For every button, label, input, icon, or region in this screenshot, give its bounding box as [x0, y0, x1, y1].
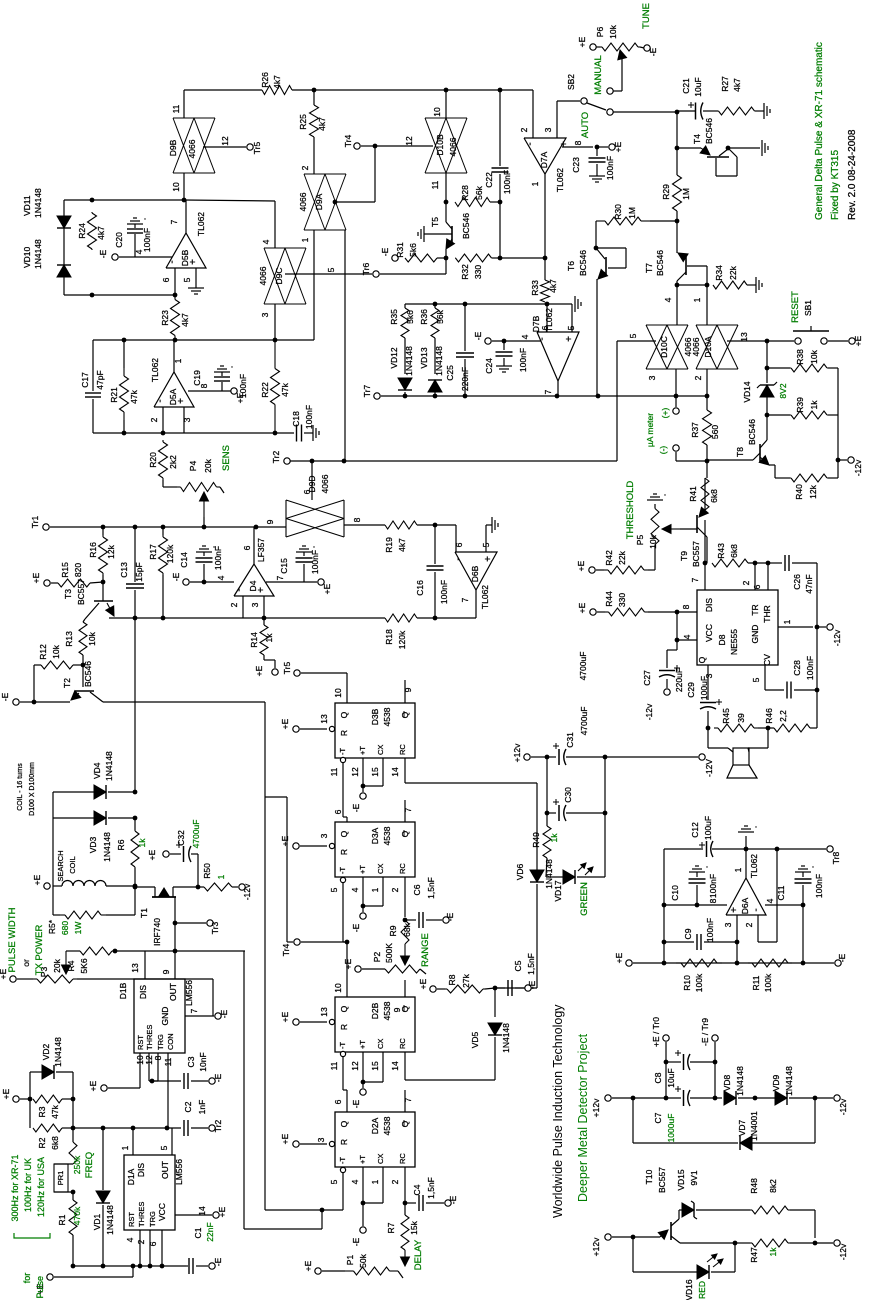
wire D9A lower rail to bus461: [344, 230, 346, 461]
svg-text:1,5nF: 1,5nF: [426, 877, 436, 899]
switch D9C (4066): [274, 201, 276, 248]
wire bus +top (R26 row, y=90): [184, 89, 262, 91]
svg-text:4: 4: [125, 1237, 135, 1242]
capacitor C5 1,5nF: [495, 987, 505, 989]
wire pin5 D9C to Tr6: [285, 273, 372, 275]
svg-text:120k: 120k: [397, 630, 407, 649]
svg-text:4: 4: [134, 249, 144, 254]
svg-text:14: 14: [197, 1206, 207, 1216]
resistor R9 68k: [401, 920, 409, 944]
svg-text:Tr8: Tr8: [831, 852, 841, 865]
svg-text:R8: R8: [447, 974, 457, 985]
svg-text:1: 1: [370, 1179, 380, 1184]
svg-text:TR: TR: [750, 604, 760, 615]
svg-text:R9: R9: [388, 925, 398, 936]
capacitor C6 1,5nF: [405, 919, 416, 921]
resistor R22: [274, 340, 276, 369]
potentiometer P5 10k: [671, 528, 680, 530]
svg-text:D3A: D3A: [370, 827, 380, 844]
capacitor C3 10nF: [183, 1073, 185, 1089]
svg-text:2: 2: [693, 375, 703, 380]
svg-text:R: R: [339, 849, 349, 855]
capacitor C9 100nF: [664, 941, 694, 943]
svg-text:1: 1: [370, 887, 380, 892]
svg-text:C31: C31: [565, 732, 575, 748]
svg-text:C32: C32: [176, 830, 186, 846]
svg-text:-E: -E: [219, 1009, 229, 1018]
resistor R11 100k: [748, 962, 752, 964]
wire pin6 D5B: [174, 268, 176, 295]
resistor R49 1k: [543, 826, 551, 858]
svg-text:50k: 50k: [358, 1253, 368, 1267]
svg-text:-12v: -12v: [838, 1243, 848, 1260]
svg-text:DIS: DIS: [704, 598, 714, 613]
capacitor C1 22nF: [188, 1258, 190, 1274]
wire pin1 D9A: [313, 230, 315, 340]
svg-text:4: 4: [261, 239, 271, 244]
svg-text:-E: -E: [213, 1257, 223, 1266]
svg-text:2: 2: [390, 887, 400, 892]
svg-text:7: 7: [403, 1097, 413, 1102]
switch D9D (4066): [285, 500, 287, 537]
svg-text:P6: P6: [595, 27, 605, 38]
svg-text:Tr5: Tr5: [252, 142, 262, 155]
op-amp D5A TL062: [154, 372, 194, 407]
svg-text:Q: Q: [400, 1120, 410, 1127]
svg-text:13: 13: [319, 1007, 329, 1017]
svg-text:+E: +E: [280, 835, 290, 846]
svg-text:+: +: [564, 336, 575, 342]
svg-text:-E: -E: [648, 47, 658, 56]
svg-text:R20: R20: [148, 452, 158, 468]
svg-text:1N4148: 1N4148: [784, 1066, 794, 1096]
wires pins 12/8 D1B: [148, 1053, 150, 1081]
svg-text:4: 4: [520, 334, 530, 339]
switch D9B (4066): [173, 117, 215, 119]
svg-text:20k: 20k: [203, 458, 213, 472]
svg-text:68k: 68k: [402, 922, 412, 936]
resistor R2 6k8: [29, 1099, 31, 1128]
transistor T9 BC557: [704, 478, 706, 512]
svg-text:27k: 27k: [461, 973, 471, 987]
svg-text:RANGE: RANGE: [420, 933, 431, 967]
resistor R35 5k6: [401, 308, 409, 338]
wire pin4 D10C: [676, 285, 678, 325]
potentiometer P2 500K: [404, 944, 406, 956]
op-amp D4 LF357: [234, 564, 274, 596]
svg-text:R32: R32: [460, 264, 470, 280]
resistor R3 47k: [33, 1095, 62, 1103]
svg-text:4k7: 4k7: [397, 538, 407, 552]
resistor R18 120k: [109, 617, 385, 619]
svg-text:DELAY: DELAY: [413, 1239, 424, 1270]
svg-text:13: 13: [319, 714, 329, 724]
svg-text:9V1: 9V1: [689, 1170, 699, 1185]
svg-text:D4: D4: [248, 580, 258, 591]
svg-text:-E: -E: [837, 953, 847, 962]
svg-text:SEARCH: SEARCH: [56, 850, 65, 881]
svg-text:5: 5: [329, 887, 339, 892]
svg-text:47nF: 47nF: [804, 574, 814, 593]
resistor R16 12k: [102, 535, 104, 537]
svg-text:T10: T10: [644, 1169, 654, 1184]
capacitor C30 4700uF: [546, 757, 548, 813]
wire -E long run: [103, 701, 265, 703]
svg-text:+E: +E: [88, 1080, 98, 1091]
wire AUTO row y=112: [613, 111, 677, 113]
svg-text:General Delta Pulse & XR-71 sc: General Delta Pulse & XR-71 schematic: [814, 42, 825, 220]
terminal +E (coil): [44, 883, 50, 889]
resistor R42 22k with +E: [589, 567, 595, 573]
svg-text:+T: +T: [358, 1040, 367, 1049]
svg-text:10nF: 10nF: [198, 1052, 208, 1071]
svg-text:GREEN: GREEN: [579, 882, 590, 916]
transistor T10 BC557: [633, 1236, 660, 1238]
svg-text:100nF: 100nF: [708, 874, 718, 898]
capacitor C13 15pF: [134, 527, 136, 582]
svg-text:-E: -E: [351, 923, 361, 932]
svg-text:100nF: 100nF: [439, 580, 449, 604]
svg-text:Rev. 2.0 08-24-2008: Rev. 2.0 08-24-2008: [847, 129, 858, 220]
wire Tr4 branch: [265, 796, 287, 798]
terminal Tr7: [374, 393, 380, 399]
svg-text:R33: R33: [530, 280, 540, 296]
svg-text:10k: 10k: [648, 534, 658, 548]
svg-text:BC546: BC546: [578, 250, 588, 276]
wire pin11 D1B: [167, 1053, 169, 1128]
svg-text:Tr1: Tr1: [30, 516, 40, 529]
wire pin3 D10C: [675, 369, 677, 396]
svg-text:-: -: [234, 588, 245, 591]
resistor R39 1k: [765, 413, 770, 418]
svg-text:-T: -T: [338, 748, 347, 755]
svg-text:C10: C10: [670, 885, 680, 901]
svg-text:R: R: [339, 1139, 349, 1145]
wire pin1 D8: [778, 626, 813, 628]
svg-text:1N4148: 1N4148: [104, 751, 114, 781]
svg-text:4066: 4066: [691, 337, 701, 356]
wire pin1 D10A: [706, 285, 708, 325]
svg-text:TX POWER: TX POWER: [34, 925, 45, 976]
resistor R12 10k: [41, 661, 73, 669]
wire pin14 D2B: [404, 1052, 406, 1080]
svg-text:T1: T1: [139, 908, 149, 918]
svg-text:C11: C11: [776, 885, 786, 900]
svg-text:300Hz for XR-71: 300Hz for XR-71: [10, 1154, 20, 1221]
diode VD9 1N4148: [755, 1097, 775, 1099]
svg-text:D10C: D10C: [659, 336, 669, 358]
wire pin13 D10A to SB1: [727, 340, 767, 342]
svg-text:C12: C12: [690, 822, 700, 838]
svg-text:+E: +E: [343, 958, 353, 969]
capacitor C4 1,5nF: [405, 1202, 416, 1204]
svg-text:14: 14: [390, 1061, 400, 1071]
wire pin2 D2A: [404, 1167, 406, 1203]
terminal +E/Tr0: [663, 1035, 669, 1041]
potentiometer P3 20k: [10, 976, 16, 982]
svg-text:10uF: 10uF: [666, 1068, 676, 1087]
capacitor C21 10uF: [695, 103, 697, 120]
svg-text:8: 8: [573, 140, 583, 145]
terminal Tr1: [43, 524, 49, 530]
wire pin10 D3B: [346, 673, 348, 703]
svg-text:D3B: D3B: [370, 708, 380, 725]
svg-text:11: 11: [329, 767, 339, 776]
wire pin3 D7A to SB2: [556, 101, 558, 138]
svg-text:R50: R50: [202, 863, 212, 879]
terminal +E (C15): [318, 579, 324, 585]
terminal -12V: [699, 754, 705, 760]
wire top rail y=849: [664, 848, 703, 850]
svg-text:C23: C23: [571, 157, 581, 173]
wire pin6 D6B: [435, 524, 456, 526]
svg-text:-12v: -12v: [838, 1098, 848, 1115]
wire meter row y=396: [590, 395, 707, 397]
resistor R7 15k: [401, 1215, 409, 1250]
svg-text:CX: CX: [376, 1039, 385, 1049]
svg-text:1000uF: 1000uF: [666, 1114, 676, 1143]
terminal -12v (LED block): [815, 1242, 833, 1244]
svg-text:-E: -E: [351, 1237, 361, 1246]
transistor T7 BC546: [676, 221, 678, 253]
switch D9A (4066): [313, 137, 315, 174]
svg-text:9: 9: [161, 969, 171, 974]
svg-text:1: 1: [120, 1145, 130, 1150]
svg-text:1N4148: 1N4148: [33, 239, 43, 269]
svg-text:6k8: 6k8: [709, 489, 719, 503]
svg-text:SB2: SB2: [566, 74, 576, 90]
svg-text:BC557: BC557: [76, 579, 86, 605]
svg-text:VD17: VD17: [553, 880, 563, 902]
svg-text:820: 820: [73, 563, 83, 577]
svg-text:4700uF: 4700uF: [578, 652, 588, 681]
svg-text:15: 15: [370, 767, 380, 777]
wire D7B output: [557, 381, 559, 396]
resistor R6 1k: [134, 830, 136, 831]
svg-text:+12v: +12v: [591, 1237, 601, 1256]
svg-text:4066: 4066: [187, 139, 197, 158]
wire pin2 D6A feedback: [757, 915, 759, 942]
svg-text:COIL - 16 turns: COIL - 16 turns: [17, 763, 24, 811]
svg-text:2: 2: [390, 1179, 400, 1184]
svg-text:9: 9: [265, 519, 275, 524]
svg-text:100nF: 100nF: [502, 170, 512, 194]
svg-text:D9A: D9A: [314, 193, 324, 210]
svg-text:SENS: SENS: [221, 445, 232, 471]
svg-text:-E: -E: [171, 572, 181, 581]
svg-text:4: 4: [663, 297, 673, 302]
svg-text:+T: +T: [358, 1155, 367, 1164]
svg-text:10: 10: [333, 688, 343, 698]
svg-text:8: 8: [352, 517, 362, 522]
svg-text:5k6: 5k6: [405, 310, 415, 324]
resistor R41 6k8: [701, 478, 709, 510]
svg-text:-: -: [525, 142, 536, 145]
svg-text:BC546: BC546: [747, 419, 757, 445]
svg-text:CON: CON: [166, 1033, 175, 1050]
svg-text:1N4148: 1N4148: [102, 832, 112, 862]
svg-text:47k: 47k: [50, 1104, 60, 1118]
svg-text:Q: Q: [697, 656, 707, 663]
svg-text:4: 4: [216, 575, 226, 580]
svg-text:-E: -E: [445, 912, 455, 921]
resistor R21: [123, 368, 125, 376]
svg-text:2: 2: [300, 165, 310, 170]
svg-text:6: 6: [242, 545, 252, 550]
resistor R32: [454, 257, 457, 259]
resistor R46 2,2: [774, 724, 810, 732]
svg-text:R5*: R5*: [47, 919, 57, 934]
potentiometer P1 50k: [404, 1250, 406, 1257]
svg-text:C26: C26: [792, 574, 802, 590]
diode VD5 1N4148: [494, 988, 496, 1017]
svg-text:C1: C1: [193, 1227, 203, 1238]
svg-text:C9: C9: [683, 928, 693, 939]
svg-text:1N4001: 1N4001: [749, 1111, 759, 1141]
transistor T5 BC546: [423, 226, 425, 242]
svg-text:4k7: 4k7: [272, 75, 282, 89]
svg-text:C21: C21: [681, 78, 691, 94]
svg-text:1: 1: [733, 867, 743, 872]
terminal +E (R3): [13, 1096, 19, 1102]
resistor R13 10k: [79, 622, 87, 655]
svg-text:15pF: 15pF: [134, 562, 144, 581]
svg-text:RED: RED: [697, 1281, 707, 1299]
wire VD14 branch: [766, 341, 768, 368]
svg-text:2: 2: [136, 1239, 146, 1244]
svg-text:4538: 4538: [382, 1116, 392, 1135]
svg-text:Tr4: Tr4: [343, 135, 353, 148]
svg-text:1N4148: 1N4148: [105, 1205, 115, 1235]
capacitor C31 4700uF: [547, 756, 556, 758]
svg-text:5: 5: [326, 267, 336, 272]
svg-text:CV: CV: [762, 654, 772, 666]
resistor R4 5K6: [80, 947, 112, 955]
svg-text:R12: R12: [38, 644, 48, 660]
wire pin9 D1B: [174, 951, 176, 979]
svg-text:1k: 1k: [137, 838, 147, 848]
svg-text:-12v: -12v: [832, 629, 842, 646]
svg-text:C22: C22: [484, 172, 494, 188]
IC D1B LM556: [134, 979, 185, 1053]
svg-text:7: 7: [275, 575, 285, 580]
resistor R48 8k2: [750, 1209, 752, 1211]
terminal +E (D2A reset): [293, 1141, 299, 1147]
resistor R27: [717, 110, 720, 112]
svg-text:Delta Pulse: Delta Pulse: [35, 1276, 45, 1300]
resistor R15 820 with +E: [44, 580, 50, 586]
svg-text:OUT: OUT: [160, 1161, 170, 1179]
svg-text:1k: 1k: [768, 1247, 778, 1257]
svg-text:Tr2: Tr2: [271, 451, 281, 464]
svg-text:3: 3: [647, 375, 657, 380]
svg-text:C18: C18: [291, 411, 301, 427]
svg-text:D5A: D5A: [168, 388, 178, 405]
op-amp D6B TL062: [455, 552, 497, 590]
diode VD10 1N4148: [57, 265, 71, 277]
wire pin3 D4: [263, 596, 265, 618]
svg-text:C15: C15: [279, 558, 289, 574]
diode VD8 1N4148: [724, 1091, 736, 1105]
svg-text:R44: R44: [604, 591, 614, 607]
svg-text:Q: Q: [400, 830, 410, 837]
svg-text:4k7: 4k7: [732, 78, 742, 92]
transistor T6 BC546: [605, 257, 607, 275]
svg-text:+E: +E: [280, 1133, 290, 1144]
svg-text:Tr6: Tr6: [361, 263, 371, 276]
svg-text:4066: 4066: [258, 266, 268, 285]
svg-text:-T: -T: [338, 1042, 347, 1049]
svg-text:100nF: 100nF: [814, 874, 824, 898]
svg-text:-E: -E: [473, 331, 483, 340]
svg-text:VCC: VCC: [157, 1203, 167, 1221]
capacitor C24 100nF: [502, 339, 507, 344]
svg-text:R16: R16: [88, 542, 98, 558]
svg-text:BC546: BC546: [704, 118, 714, 144]
svg-text:R27: R27: [720, 76, 730, 92]
wire pin8 D9D to R19: [344, 524, 385, 526]
IC D1A LM556: [124, 1155, 175, 1230]
svg-text:100nF: 100nF: [213, 546, 223, 570]
svg-text:+E: +E: [614, 952, 624, 963]
svg-text:2,2: 2,2: [778, 710, 788, 722]
svg-text:680: 680: [60, 921, 70, 935]
diode VD3 1N4148: [53, 817, 95, 819]
svg-text:VD9: VD9: [771, 1074, 781, 1091]
svg-text:+T: +T: [358, 865, 367, 874]
svg-text:R35: R35: [389, 309, 399, 325]
wire pin11 D3B: [340, 757, 345, 762]
svg-text:12: 12: [350, 1061, 360, 1071]
svg-text:2k2: 2k2: [168, 455, 178, 469]
svg-text:-: -: [155, 399, 166, 402]
capacitor C12 100uF: [706, 841, 708, 857]
svg-text:LF357: LF357: [256, 538, 266, 562]
ground above D6A output: [745, 836, 747, 849]
svg-text:VD10: VD10: [22, 246, 32, 268]
svg-text:6: 6: [333, 1099, 343, 1104]
svg-text:VD5: VD5: [470, 1031, 480, 1048]
svg-text:4538: 4538: [382, 826, 392, 845]
svg-text:100nF: 100nF: [605, 156, 615, 180]
wire pin10 D9B: [183, 173, 185, 200]
wire pin9 D3B: [404, 680, 406, 703]
ground above P5: [654, 504, 656, 508]
terminal +12v (C31): [524, 754, 530, 760]
svg-text:4700uF: 4700uF: [579, 707, 589, 736]
svg-text:Tr3: Tr3: [210, 922, 220, 935]
svg-text:3: 3: [316, 1137, 326, 1142]
svg-text:P5: P5: [635, 535, 645, 546]
svg-text:VD2: VD2: [41, 1043, 51, 1060]
wires pins 12/15 D3B: [362, 758, 364, 786]
diode VD4 1N4148: [53, 791, 95, 793]
svg-text:GND: GND: [750, 625, 760, 644]
diode VD11 1N4148: [57, 216, 71, 228]
capacitor C32 4700uF with +E: [163, 851, 169, 857]
wire pin9 D2B: [404, 980, 406, 997]
wire Tr7 row y=396: [381, 395, 590, 397]
svg-text:PULSE WIDTH: PULSE WIDTH: [7, 907, 18, 972]
svg-text:-E: -E: [448, 1195, 458, 1204]
svg-text:100nF: 100nF: [805, 656, 815, 680]
svg-text:R43: R43: [716, 543, 726, 559]
svg-text:+T: +T: [358, 746, 367, 755]
wire source bus y=951: [174, 923, 176, 951]
svg-text:39: 39: [736, 713, 746, 723]
svg-text:-E: -E: [351, 1099, 361, 1108]
svg-text:100k: 100k: [694, 973, 704, 992]
